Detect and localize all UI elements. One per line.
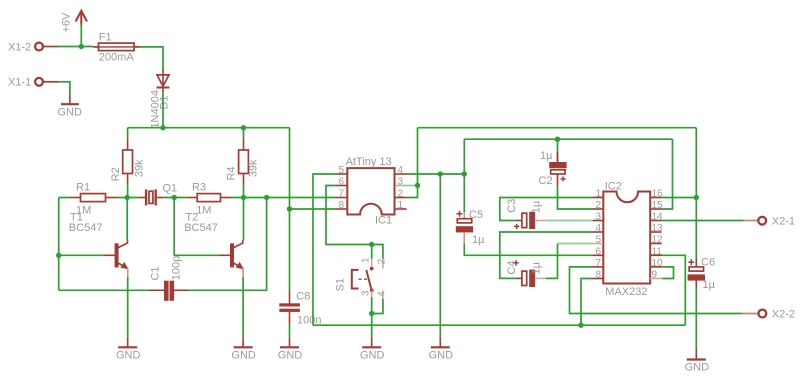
pin IC1 pin2 stub [395, 197, 407, 199]
op-amp IC1 body [347, 168, 394, 214]
pin S1 pin4 stub pale [382, 291, 384, 299]
wire fuse to diode corner [140, 47, 164, 71]
ground T2 [234, 337, 253, 348]
junction T2 base coupling node [172, 195, 177, 200]
svg-text:MAX232: MAX232 [605, 286, 647, 298]
pin IC2 pin5 stub pale [593, 243, 604, 245]
junction S1 top node [369, 242, 374, 247]
svg-text:4: 4 [376, 291, 387, 297]
wire row to R1 [59, 197, 70, 199]
pin X1-1 [35, 78, 43, 86]
wire R4 bottom [243, 185, 245, 198]
wire T1 base [59, 254, 104, 256]
pin IC1 pin4 stub [395, 173, 407, 175]
ground S1 [362, 337, 381, 348]
pin IC2 pin9 stub pale [650, 278, 662, 280]
svg-text:X1-2: X1-2 [8, 42, 31, 54]
wire VCC riser to C8 [289, 128, 291, 291]
svg-text:1µ: 1µ [703, 279, 716, 291]
svg-text:C4: C4 [506, 260, 518, 274]
pin IC2 pin7 stub [593, 266, 604, 268]
wire IC1 pin2 riser [407, 128, 418, 198]
ground C6 [687, 348, 706, 359]
pin IC2 pin3 stub [593, 220, 604, 222]
pin IC2 pin8 stub [593, 278, 604, 280]
svg-text:AtTiny 13: AtTiny 13 [346, 156, 392, 168]
wire C2 bus [464, 138, 672, 140]
pin IC1 pin5 stub [336, 173, 347, 175]
svg-text:GND: GND [429, 350, 454, 362]
pin IC2 pin13 stub [650, 231, 662, 233]
svg-text:1: 1 [595, 189, 601, 200]
wire C1 right to riser [189, 198, 267, 291]
pin IC1 pin7 stub [336, 197, 347, 199]
svg-text:C2: C2 [539, 175, 553, 187]
svg-text:8: 8 [338, 200, 344, 211]
pin IC2 pin11 stub [650, 254, 662, 256]
svg-text:14: 14 [652, 212, 664, 223]
crystal Q1 [139, 189, 163, 205]
svg-text:2: 2 [398, 189, 404, 200]
junction IC1 pin8 net [287, 206, 292, 211]
switch S1 contact dots [370, 267, 374, 271]
junction IC1 pin3 node [415, 183, 420, 188]
capacitor C2 [550, 139, 567, 186]
svg-text:4: 4 [595, 223, 601, 234]
svg-text:11: 11 [652, 246, 663, 257]
svg-text:7: 7 [338, 189, 344, 200]
svg-text:1: 1 [398, 200, 404, 211]
wire C5 bottom to pin6 row [464, 244, 592, 256]
wire S1 top bracket [372, 245, 383, 259]
junction C1 right riser node [264, 195, 269, 200]
svg-text:IC1: IC1 [375, 215, 392, 227]
svg-text:C1: C1 [149, 266, 161, 280]
svg-text:R2: R2 [110, 167, 122, 181]
junction T1 collector node [125, 195, 130, 200]
wire IC1 pin4 ground net [407, 173, 465, 175]
fuse F1 [93, 43, 139, 51]
svg-text:GND: GND [685, 362, 710, 374]
wire C1 left [59, 289, 149, 291]
svg-text:2: 2 [595, 200, 601, 211]
capacitor C4 [513, 260, 535, 286]
svg-text:3: 3 [595, 212, 601, 223]
svg-text:1µ: 1µ [531, 200, 543, 213]
svg-text:4: 4 [398, 165, 404, 176]
junction ground drop node [438, 171, 443, 176]
wire S1 pin1 drop [371, 245, 373, 259]
wire S1 pin3 drop [371, 297, 373, 337]
junction diode at VCC bus [160, 125, 165, 130]
svg-text:GND: GND [116, 350, 141, 362]
wire C2 to MAX232 pin2 [558, 186, 593, 209]
svg-text:C6: C6 [701, 256, 715, 268]
transistor T2 [219, 240, 243, 277]
wire MAX232 pin8 drop [581, 279, 593, 326]
pin IC2 pin10 stub [650, 266, 662, 268]
wire MAX232 pin16 to VCC riser [662, 197, 697, 199]
capacitor C5 [456, 211, 473, 244]
ground X1-1 [61, 94, 79, 105]
resistor R4 [239, 139, 249, 185]
wire C5 top riser [463, 139, 465, 212]
capacitor C1 [149, 281, 189, 301]
junction MAX232 pin8 drop node [578, 323, 583, 328]
wire IC1 pin8 net [290, 208, 336, 210]
ground T1 [118, 337, 137, 348]
svg-text:BC547: BC547 [69, 222, 103, 234]
svg-text:15: 15 [652, 200, 664, 211]
svg-text:GND: GND [231, 350, 256, 362]
svg-text:C8: C8 [296, 291, 310, 303]
junction pin16 node [694, 195, 699, 200]
svg-text:10: 10 [652, 258, 664, 269]
wire VCC right riser [695, 128, 697, 198]
svg-text:39k: 39k [134, 159, 146, 177]
wire MAX232 pin1 to C3 [500, 198, 593, 221]
junction R4 at VCC bus [241, 125, 246, 130]
svg-text:16: 16 [652, 189, 664, 200]
pin X2-1 stub [744, 220, 759, 222]
wire X1-2 to fuse [58, 46, 93, 48]
junction C2 node [555, 137, 560, 142]
wire X1-2 pin stub [43, 46, 58, 48]
svg-text:1µ: 1µ [540, 150, 553, 162]
pin S1 pin1 stub pale [371, 259, 373, 267]
svg-text:GND: GND [360, 350, 385, 362]
wire X1-1 pin stub [43, 81, 59, 83]
wire IC1 pin6 to switch [326, 186, 372, 245]
svg-text:200mA: 200mA [99, 52, 135, 64]
svg-text:8: 8 [595, 270, 601, 281]
wire T1 emitter to ground [127, 277, 129, 337]
wire C8 to ground [289, 324, 291, 337]
svg-text:R1: R1 [76, 181, 90, 193]
pin IC1 pin1 stub [395, 208, 407, 210]
pin X2-2 stub [742, 313, 758, 315]
svg-text:1M: 1M [196, 204, 211, 216]
svg-text:100p: 100p [170, 256, 182, 280]
svg-text:X2-2: X2-2 [772, 309, 795, 321]
svg-text:X2-1: X2-1 [772, 216, 795, 228]
junction T2 collector node [241, 195, 246, 200]
pin IC2 pin1 stub [593, 197, 604, 199]
wire MAX232 pin7 to X2-2 [570, 267, 743, 314]
wire C4 to pin5 pale [558, 243, 593, 245]
diode D1 [157, 70, 170, 93]
pin IC1 pin3 stub pale [395, 185, 402, 187]
supply +6V arrow [76, 11, 87, 25]
pin IC2 pin4 stub [593, 231, 604, 233]
svg-text:1: 1 [361, 257, 372, 263]
transistor T1 [104, 240, 128, 277]
svg-text:2: 2 [376, 258, 387, 264]
svg-text:D1: D1 [159, 95, 171, 109]
pin IC2 pin14 stub [650, 220, 662, 222]
pin S1 pin2 stub pale [382, 259, 384, 269]
pin IC1 pin6 stub [336, 185, 347, 187]
svg-text:3: 3 [361, 290, 372, 296]
svg-text:GND: GND [278, 350, 303, 362]
pin X2-1 [758, 217, 766, 225]
svg-text:1µ: 1µ [472, 234, 485, 246]
wire T1 collector [126, 198, 128, 241]
junction C5 top node [462, 171, 467, 176]
wire MAX232 pin15 riser [662, 139, 673, 209]
svg-text:F1: F1 [99, 32, 112, 44]
pin IC2 pin16 stub [650, 197, 662, 199]
wire Q1 to R3 junction [163, 197, 186, 199]
pin X2-2 [759, 310, 767, 318]
pin IC2 pin12 stub [650, 243, 662, 245]
wire R2 bottom [127, 185, 129, 198]
wire VCC bus [128, 127, 290, 129]
pin IC2 pin15 stub [650, 208, 662, 210]
svg-text:Q1: Q1 [163, 182, 178, 194]
wire C4 riser to MAX232 pin5 [546, 244, 558, 279]
pin X1-2 [35, 43, 43, 51]
capacitor C6 [688, 258, 705, 288]
wire S1 bottom bracket [372, 299, 383, 314]
wire C4 right pale [535, 277, 546, 279]
switch S1 actuator [352, 270, 372, 291]
ground C8 [280, 337, 299, 348]
ground mid [431, 337, 450, 348]
wire T2 base vertical [174, 198, 219, 256]
wire MAX232 pin11 to bottom bus [662, 255, 686, 325]
pin IC1 pin8 stub [336, 208, 347, 210]
wire diode to VCC bus [162, 93, 164, 128]
svg-text:9: 9 [652, 270, 658, 281]
svg-text:IC2: IC2 [605, 181, 622, 193]
wire ground drop [439, 174, 441, 337]
svg-text:13: 13 [652, 223, 664, 234]
svg-text:C5: C5 [469, 209, 483, 221]
wire T2 emitter to ground [242, 277, 244, 337]
wire MAX232 pin4 to C4 [500, 232, 593, 278]
junction S1 bottom node [369, 311, 374, 316]
wire RXTX bottom bus [313, 324, 685, 326]
wire MAX232 pin9 pin10 bracket [662, 267, 673, 279]
pin IC2 pin2 stub [593, 208, 604, 210]
junction T1 base node [56, 253, 61, 258]
svg-text:GND: GND [58, 106, 83, 118]
svg-text:R3: R3 [192, 181, 206, 193]
wire IC1 pin5 to RX bus [313, 174, 336, 325]
wire R2 top [127, 128, 129, 139]
svg-text:5: 5 [595, 235, 601, 246]
svg-text:S1: S1 [335, 278, 347, 291]
junction +6V node [79, 44, 84, 49]
wire +6V drop [80, 25, 82, 47]
svg-text:7: 7 [595, 258, 601, 269]
svg-text:5: 5 [338, 165, 344, 176]
wire C3 right pale [535, 220, 546, 222]
chip IC2 body [603, 192, 650, 284]
wire X1-1 to ground [59, 82, 70, 94]
wire R4 top [243, 128, 245, 139]
capacitor C8 [280, 291, 300, 324]
svg-text:1µ: 1µ [531, 261, 543, 274]
svg-text:12: 12 [652, 235, 664, 246]
svg-text:6: 6 [338, 177, 344, 188]
wire upper bus to MAX232 pin16 [418, 127, 697, 129]
wire T2 collector [243, 198, 245, 241]
resistor R1 [70, 194, 116, 202]
svg-text:+6V: +6V [60, 12, 72, 33]
wire MAX232 pin14 to X2-1 [662, 220, 744, 222]
svg-text:6: 6 [595, 246, 601, 257]
wire IC1 pin3 pale net [402, 185, 418, 187]
svg-text:BC547: BC547 [184, 222, 218, 234]
wire R1 to junction [116, 197, 139, 199]
resistor R2 [123, 139, 133, 185]
wire C6 to ground [695, 288, 697, 348]
wire R3 to IC1 pin7 [232, 197, 336, 199]
wire pin16 node to C6 [695, 198, 697, 259]
wire base row left vertical [58, 198, 60, 291]
pin IC2 pin6 stub [593, 254, 604, 256]
svg-text:R4: R4 [225, 166, 237, 180]
svg-text:C3: C3 [506, 199, 518, 213]
pin S1 pin3 stub pale [371, 291, 373, 298]
svg-text:X1-1: X1-1 [8, 77, 31, 89]
capacitor C3 [514, 212, 535, 229]
wire C3 to MAX232 pin3 pale [546, 220, 593, 222]
resistor R3 [186, 194, 231, 202]
svg-text:39k: 39k [247, 159, 259, 177]
